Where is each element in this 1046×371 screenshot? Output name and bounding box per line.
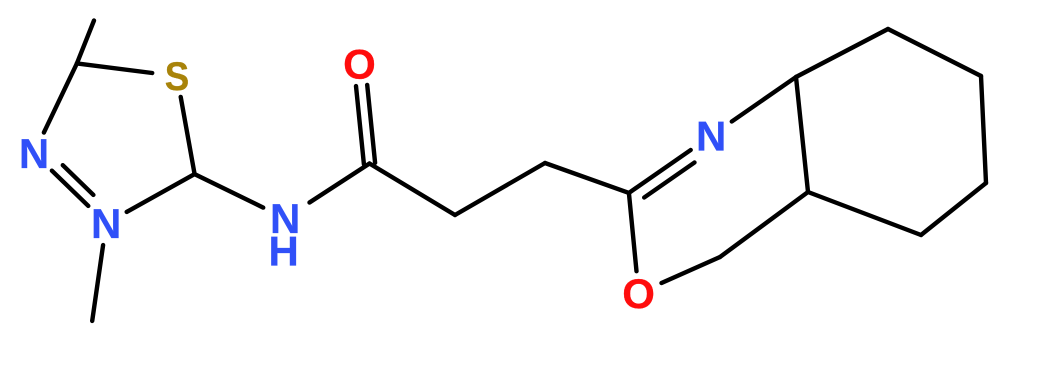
svg-text:O: O (343, 40, 376, 87)
svg-text:N: N (19, 130, 49, 177)
svg-text:H: H (269, 228, 299, 275)
svg-text:N: N (696, 113, 726, 160)
svg-text:N: N (91, 200, 121, 247)
svg-text:S: S (165, 55, 190, 99)
svg-text:O: O (622, 270, 655, 317)
